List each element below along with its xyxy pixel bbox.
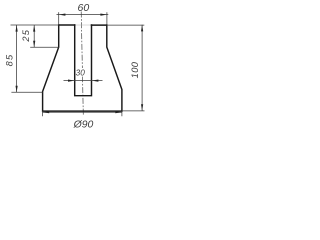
svg-text:85: 85 bbox=[4, 54, 14, 67]
svg-text:Ø90: Ø90 bbox=[73, 120, 94, 131]
svg-text:30: 30 bbox=[76, 68, 86, 77]
svg-text:25: 25 bbox=[21, 29, 31, 43]
svg-text:60: 60 bbox=[78, 2, 90, 14]
svg-text:100: 100 bbox=[130, 61, 140, 78]
